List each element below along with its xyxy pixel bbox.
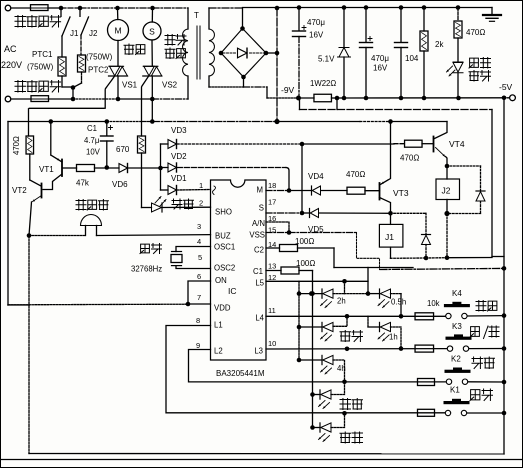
svg-text:0.5h: 0.5h bbox=[391, 298, 406, 307]
wire VD6 to diode bus bbox=[128, 166, 163, 171]
capacitor 470u-1 bbox=[293, 5, 307, 98]
wire pin6 to VDD loop bbox=[188, 281, 211, 304]
wire pin9 L2 route bbox=[189, 350, 505, 383]
label dian-ji M bbox=[124, 44, 145, 55]
LED power indicator bbox=[447, 62, 464, 100]
svg-text:4h: 4h bbox=[337, 364, 346, 373]
capacitor 470u-2 bbox=[360, 5, 373, 100]
LED bai-ye swing bbox=[142, 197, 211, 213]
label VS2 bbox=[162, 81, 178, 90]
label kai/guan bbox=[470, 326, 499, 339]
wire -5V rail bbox=[344, 97, 504, 99]
switch J2 bbox=[80, 8, 98, 55]
label jing-zhen 32768Hz bbox=[131, 244, 162, 274]
svg-text:100Ω: 100Ω bbox=[295, 237, 314, 246]
wire relay return line bbox=[391, 256, 493, 261]
diode VD2 bbox=[168, 152, 187, 172]
resistor 470R left bbox=[12, 136, 34, 155]
svg-text:10: 10 bbox=[268, 339, 276, 348]
wire bbox=[11, 7, 31, 9]
svg-text:VT4: VT4 bbox=[449, 139, 465, 149]
svg-text:J1: J1 bbox=[385, 232, 394, 242]
button line K3 on-off bbox=[266, 346, 506, 351]
capacitor C1 bbox=[101, 119, 114, 170]
svg-text:L3: L3 bbox=[254, 347, 263, 356]
resistor 47k bbox=[76, 165, 119, 188]
svg-text:16V: 16V bbox=[309, 31, 324, 40]
label VT2 bbox=[12, 186, 27, 195]
svg-text:16V: 16V bbox=[373, 64, 388, 73]
svg-text:2h: 2h bbox=[337, 297, 346, 306]
svg-text:S: S bbox=[149, 27, 155, 37]
wire left rail to VDD bbox=[8, 122, 29, 306]
svg-text:32768Hz: 32768Hz bbox=[131, 265, 162, 274]
IC pin number labels left bbox=[196, 181, 203, 350]
svg-text:4: 4 bbox=[197, 237, 201, 246]
label VT4 bbox=[449, 139, 465, 149]
node -9V bbox=[296, 96, 301, 101]
label bai-ye bbox=[172, 199, 194, 209]
svg-text:5: 5 bbox=[198, 253, 202, 262]
label 100R C1 bbox=[296, 259, 315, 268]
svg-text:VS2: VS2 bbox=[162, 81, 178, 90]
PTC2 bbox=[74, 55, 86, 87]
resistor 1W22 bbox=[299, 79, 345, 102]
wire VD3 to node bbox=[177, 142, 304, 147]
wire pin18 M bbox=[266, 188, 312, 193]
wire LED column bus bbox=[297, 281, 302, 362]
svg-text:470Ω: 470Ω bbox=[466, 28, 485, 37]
wire bridge right to -9V node bbox=[266, 51, 279, 56]
node VDD bbox=[186, 302, 211, 307]
fuse F2 bbox=[11, 96, 49, 102]
diode J2 clamp bbox=[447, 166, 485, 214]
transistor VT4 bbox=[434, 122, 448, 167]
svg-text:VT2: VT2 bbox=[12, 186, 27, 195]
diode bus vertical bbox=[161, 144, 169, 190]
svg-text:5.1V: 5.1V bbox=[318, 55, 335, 64]
svg-text:2k: 2k bbox=[435, 40, 444, 49]
label 104 bbox=[405, 54, 419, 63]
VS1 gate wire bbox=[29, 76, 115, 136]
switch J1 bbox=[61, 8, 79, 57]
label dian-yuan-zhi-shi bbox=[469, 58, 491, 82]
svg-text:470μ: 470μ bbox=[307, 18, 325, 27]
svg-text:2: 2 bbox=[199, 199, 203, 208]
IC pin labels inside right bbox=[249, 186, 265, 356]
svg-text:L5: L5 bbox=[255, 279, 264, 288]
label bai-ye K2 bbox=[472, 357, 495, 369]
LED 0.5h bbox=[345, 289, 407, 316]
capacitor 104 bbox=[395, 5, 408, 100]
diode VD1 bbox=[168, 174, 187, 195]
svg-text:10V: 10V bbox=[86, 148, 101, 157]
LED gao-re bbox=[299, 316, 347, 341]
label VS1 bbox=[122, 81, 138, 90]
label 470R VT3 bbox=[346, 170, 365, 179]
svg-text:13: 13 bbox=[268, 262, 276, 271]
resistor 470R VT3 bbox=[321, 187, 380, 194]
node J1 top bbox=[59, 6, 64, 11]
buzzer feng-ming-qi bbox=[29, 215, 211, 236]
wire return bus y109 bbox=[300, 96, 505, 257]
svg-text:4.7μ: 4.7μ bbox=[84, 136, 99, 145]
wire bbox=[151, 40, 153, 66]
svg-text:L2: L2 bbox=[214, 347, 223, 356]
svg-text:S: S bbox=[259, 204, 264, 213]
transistor VT1 bbox=[43, 119, 77, 189]
wire bottom AC rail bbox=[49, 98, 189, 100]
VS2 gate wire bbox=[142, 76, 149, 136]
IC pin labels inside left bbox=[213, 186, 236, 356]
LED 2h bbox=[299, 289, 346, 308]
resistor K1 bbox=[418, 409, 435, 416]
svg-text:PTC1: PTC1 bbox=[32, 50, 53, 59]
svg-text:BA3205441M: BA3205441M bbox=[216, 369, 265, 378]
svg-text:OSC1: OSC1 bbox=[214, 243, 235, 252]
svg-text:9: 9 bbox=[196, 341, 200, 350]
AC terminal bottom bbox=[5, 96, 11, 102]
svg-text:-9V: -9V bbox=[281, 85, 295, 95]
bridge rectifier bbox=[219, 26, 269, 79]
svg-text:AC: AC bbox=[4, 44, 17, 54]
motor M bbox=[108, 6, 129, 41]
IC BA3205441M body bbox=[211, 180, 267, 360]
label BA3205441M bbox=[216, 369, 265, 378]
resistor K2 bbox=[418, 379, 435, 386]
label tong-zhou-dian-ji bbox=[165, 35, 186, 59]
button K2 bbox=[445, 355, 471, 385]
svg-text:470μ: 470μ bbox=[371, 54, 389, 63]
svg-text:K2: K2 bbox=[451, 355, 461, 364]
resistor 670 bbox=[116, 136, 146, 208]
resistor K3 bbox=[415, 345, 434, 352]
transformer T secondary bbox=[209, 8, 214, 87]
resistor 470R power led bbox=[454, 5, 462, 61]
label 470u 16V bbox=[307, 18, 325, 40]
LED di-re bbox=[313, 382, 345, 409]
wire VT2 emitter down bbox=[28, 236, 30, 454]
svg-text:L4: L4 bbox=[255, 314, 264, 323]
svg-text:VD4: VD4 bbox=[308, 172, 324, 181]
svg-text:VSS: VSS bbox=[249, 231, 265, 240]
wire pin15 VSS bbox=[266, 233, 380, 270]
sync motor S bbox=[143, 6, 161, 40]
button line K2 baiye bbox=[342, 380, 506, 385]
svg-text:L1: L1 bbox=[214, 321, 223, 330]
transformer core bbox=[197, 26, 200, 79]
svg-text:VD2: VD2 bbox=[171, 152, 187, 161]
wire top rail bbox=[48, 7, 188, 9]
svg-text:470Ω: 470Ω bbox=[346, 170, 365, 179]
svg-text:K4: K4 bbox=[452, 289, 462, 298]
svg-text:VS1: VS1 bbox=[122, 81, 138, 90]
diode VD5 bbox=[308, 209, 324, 235]
wire J2 to return bus bbox=[445, 214, 450, 261]
fuse F1 bbox=[31, 5, 49, 11]
svg-text:3: 3 bbox=[197, 222, 201, 231]
resistor 100R C1 bbox=[266, 267, 313, 274]
ground bbox=[483, 15, 501, 21]
button line K4 dingshi bbox=[266, 313, 506, 318]
label PTC1 750W bbox=[27, 50, 54, 72]
label ding-shi bbox=[476, 301, 497, 312]
svg-text:M: M bbox=[257, 186, 264, 195]
svg-text:18: 18 bbox=[268, 181, 276, 190]
label 470u 16V 2 bbox=[371, 54, 389, 73]
LED leng-feng bbox=[313, 413, 345, 441]
svg-text:C2: C2 bbox=[254, 246, 264, 255]
svg-text:470Ω: 470Ω bbox=[12, 136, 21, 155]
label feng-ming-qi bbox=[76, 200, 108, 211]
triac VS1 bbox=[109, 66, 128, 101]
node buzzer bbox=[27, 233, 32, 238]
svg-text:C1: C1 bbox=[87, 124, 97, 133]
wire top plus rail bbox=[243, 8, 493, 15]
wire bottom rail bbox=[29, 453, 504, 455]
svg-text:OSC2: OSC2 bbox=[214, 264, 235, 273]
svg-text:VDD: VDD bbox=[214, 304, 231, 313]
resistor 470R VT4 bbox=[302, 140, 434, 147]
label re-rong-duan-qi 2 bbox=[15, 81, 61, 93]
resistor 100R C2 bbox=[266, 245, 413, 268]
diode VD6 bbox=[112, 164, 128, 190]
diode VD3 bbox=[168, 126, 187, 149]
svg-text:1h: 1h bbox=[389, 333, 398, 342]
button K4 bbox=[444, 289, 470, 319]
svg-text:VT3: VT3 bbox=[393, 188, 409, 198]
svg-text:K1: K1 bbox=[450, 386, 460, 395]
svg-text:J2: J2 bbox=[442, 186, 451, 196]
wire VD1 to pin1 bbox=[177, 189, 210, 192]
label 470R bbox=[466, 28, 485, 37]
svg-text:104: 104 bbox=[405, 54, 419, 63]
svg-text:1W22Ω: 1W22Ω bbox=[310, 79, 336, 88]
triac VS2 bbox=[143, 66, 162, 123]
wire -9V bus bbox=[8, 119, 447, 124]
svg-text:PTC2: PTC2 bbox=[88, 66, 109, 75]
svg-text:7: 7 bbox=[197, 293, 201, 302]
wire bridge bottom bbox=[209, 77, 299, 98]
svg-text:-5V: -5V bbox=[499, 82, 513, 92]
terminal -5V bbox=[499, 82, 515, 101]
wire node y144 vertical bbox=[300, 144, 305, 215]
label 100R C2 bbox=[295, 237, 314, 246]
wire C2 riser bbox=[368, 266, 506, 294]
node PTC common bbox=[62, 85, 75, 101]
svg-text:8: 8 bbox=[196, 316, 200, 325]
LED 4h bbox=[299, 355, 346, 381]
svg-text:17: 17 bbox=[268, 198, 276, 207]
wire pin17 S bbox=[266, 212, 310, 214]
svg-text:K3: K3 bbox=[452, 322, 462, 331]
label gao-re bbox=[340, 331, 363, 342]
label 5.1V bbox=[318, 55, 335, 64]
svg-text:SHO: SHO bbox=[215, 208, 232, 217]
button K3 bbox=[446, 322, 472, 351]
diode J1 clamp bbox=[391, 213, 431, 258]
svg-text:J2: J2 bbox=[89, 29, 98, 38]
svg-text:(750W): (750W) bbox=[86, 53, 113, 62]
svg-text:1: 1 bbox=[199, 181, 203, 190]
wire pin16 A/N bbox=[266, 222, 291, 235]
svg-text:10k: 10k bbox=[427, 299, 440, 308]
svg-text:ON: ON bbox=[215, 276, 227, 285]
AC terminal top bbox=[5, 5, 11, 11]
label VT1 bbox=[39, 165, 54, 174]
resistor 10k bbox=[415, 299, 440, 320]
svg-text:VD3: VD3 bbox=[171, 126, 187, 135]
svg-text:47k: 47k bbox=[76, 179, 90, 188]
wire pin8 L1 route bbox=[166, 326, 504, 414]
diode VD4 bbox=[308, 172, 324, 195]
svg-text:J1: J1 bbox=[70, 29, 79, 38]
crystal 32768Hz bbox=[171, 247, 211, 269]
svg-text:220V: 220V bbox=[1, 60, 22, 70]
zener 5.1V bbox=[338, 5, 351, 100]
label re-rong-duan-qi 1 bbox=[15, 16, 61, 28]
label leng-feng bbox=[340, 432, 363, 443]
svg-text:(750W): (750W) bbox=[27, 63, 54, 72]
transistor VT2 bbox=[29, 154, 42, 236]
svg-text:T: T bbox=[194, 11, 199, 20]
LED 1h bbox=[368, 316, 401, 348]
IC pin number labels right bbox=[268, 181, 276, 348]
label AC 220V bbox=[1, 44, 22, 70]
svg-text:VD6: VD6 bbox=[112, 180, 128, 189]
wire pin13 column bbox=[310, 271, 315, 430]
button K1 bbox=[444, 386, 470, 416]
label 2k bbox=[435, 40, 444, 49]
relay J2 bbox=[436, 164, 460, 216]
wire VD2 to M node bbox=[177, 168, 289, 191]
wire VDD bus bbox=[8, 303, 188, 306]
wire pin12 L5 bbox=[266, 279, 368, 294]
svg-text:VD1: VD1 bbox=[171, 174, 187, 183]
wire secondary top to bridge bbox=[209, 8, 243, 29]
label di-re bbox=[340, 399, 363, 410]
wire -9V vertical bbox=[275, 6, 280, 122]
wire VD5 to VT3 collector node bbox=[319, 212, 391, 214]
svg-text:A/N: A/N bbox=[252, 219, 265, 228]
svg-text:6: 6 bbox=[197, 272, 201, 281]
svg-text:670: 670 bbox=[116, 145, 130, 154]
transistor VT3 bbox=[380, 119, 393, 215]
label -9V bbox=[281, 85, 295, 95]
transformer T primary bbox=[183, 8, 199, 99]
svg-text:M: M bbox=[114, 26, 121, 36]
node J2 top bbox=[78, 6, 83, 11]
svg-text:100Ω: 100Ω bbox=[296, 259, 315, 268]
label C1 4.7u 10V bbox=[84, 124, 101, 157]
svg-text:11: 11 bbox=[268, 306, 276, 315]
relay J1 bbox=[379, 213, 403, 258]
svg-text:IC: IC bbox=[228, 286, 237, 296]
PTC1 bbox=[58, 57, 66, 87]
svg-text:C1: C1 bbox=[253, 267, 263, 276]
label 470R VT4 bbox=[400, 154, 419, 163]
wire right rail bbox=[503, 98, 505, 454]
label PTC2 750W bbox=[86, 53, 113, 75]
svg-text:BUZ: BUZ bbox=[215, 232, 231, 241]
svg-text:470Ω: 470Ω bbox=[400, 154, 419, 163]
label tiao-wen bbox=[470, 389, 493, 401]
label VT3 bbox=[393, 188, 409, 198]
resistor 2k bbox=[420, 5, 428, 100]
wire bbox=[117, 41, 119, 66]
button line K1 tiaowen bbox=[342, 411, 506, 416]
svg-text:VT1: VT1 bbox=[39, 165, 54, 174]
